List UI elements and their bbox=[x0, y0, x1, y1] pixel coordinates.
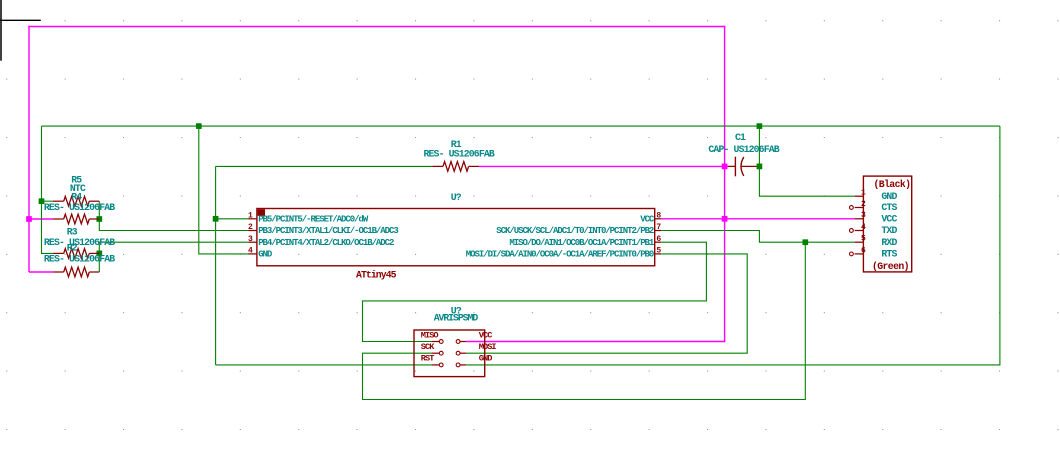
svg-text:AVRISPSMD: AVRISPSMD bbox=[434, 312, 479, 323]
connector J1 pin 4 (TXD) bbox=[855, 223, 898, 236]
wire GND: C1 branch to J1 GND bbox=[759, 126, 854, 196]
junction RESET at IC pin 1 row bbox=[213, 216, 219, 222]
wire GND: drop to IC pin 4 bbox=[199, 126, 249, 254]
ic U? pin 4 (GND) bbox=[248, 247, 273, 260]
svg-text:(Green): (Green) bbox=[872, 261, 909, 272]
label (Black) bbox=[874, 179, 911, 190]
wire SCK: IC pin 7 to J1 RXD bbox=[661, 231, 855, 243]
svg-text:C1: C1 bbox=[735, 132, 746, 143]
svg-text:MISO: MISO bbox=[421, 330, 439, 340]
connector J1 pin 3 (VCC) bbox=[855, 211, 898, 224]
wire VCC: R1 to C1 bbox=[479, 165, 728, 167]
svg-text:CAP- US1206FAB: CAP- US1206FAB bbox=[708, 144, 779, 155]
svg-text:RES- US1206FAB: RES- US1206FAB bbox=[424, 149, 495, 160]
resistor R5 bbox=[53, 196, 99, 206]
no-connect marker pin 4 (TXD) bbox=[849, 229, 853, 233]
svg-text:MOSI/DI/SDA/AIN0/OC0A/-OC1A/AR: MOSI/DI/SDA/AIN0/OC0A/-OC1A/AREF/PCINT0/… bbox=[466, 250, 654, 260]
wire VCC: IC pin 8 to J1 VCC bbox=[661, 218, 855, 220]
wire VCC: to ISP VCC pin bbox=[466, 341, 725, 343]
junction GND rail to IC bbox=[196, 123, 202, 129]
svg-text:PB4/PCINT4/XTAL2/CLKO/OC1B/ADC: PB4/PCINT4/XTAL2/CLKO/OC1B/ADC2 bbox=[258, 238, 394, 248]
svg-text:3: 3 bbox=[861, 211, 866, 220]
junction VCC at IC pin 8 row bbox=[722, 216, 728, 222]
label ATtiny45 bbox=[356, 270, 397, 281]
ic U? pin 5 (PB0) bbox=[466, 247, 662, 260]
wire GND: left vertical to R3 bbox=[42, 126, 54, 253]
ic U? pin 7 (PB2) bbox=[496, 223, 661, 236]
value RES- US1206FAB (R2) bbox=[44, 253, 115, 264]
label C1 bbox=[735, 132, 746, 143]
svg-text:VCC: VCC bbox=[640, 214, 655, 224]
wire PB3: divider tap to IC pin 2 bbox=[99, 201, 248, 230]
connector J1 body bbox=[863, 176, 911, 272]
svg-text:VCC: VCC bbox=[479, 330, 492, 340]
svg-text:VCC: VCC bbox=[881, 213, 897, 224]
label R4 bbox=[71, 191, 82, 202]
svg-text:R4: R4 bbox=[71, 191, 82, 202]
label AVRISPSMD bbox=[434, 312, 479, 323]
value RES- US1206FAB (R1) bbox=[424, 149, 495, 160]
label (Green) bbox=[872, 261, 909, 272]
no-connect marker pin 6 (RTS) bbox=[849, 252, 853, 256]
isp pin GND bbox=[456, 354, 492, 367]
value RES- US1206FAB (R3) bbox=[44, 237, 115, 248]
junction GND at R5 left lead bbox=[39, 198, 45, 204]
svg-text:ATtiny45: ATtiny45 bbox=[356, 270, 397, 281]
junction SCK branch bbox=[802, 239, 808, 245]
junction PB3 at R4 right lead bbox=[96, 216, 102, 222]
svg-text:5: 5 bbox=[656, 247, 661, 256]
svg-text:6: 6 bbox=[861, 246, 866, 255]
svg-text:RES- US1206FAB: RES- US1206FAB bbox=[44, 237, 115, 248]
wire SCK: bottom route to ISP SCK bbox=[363, 242, 806, 399]
wire RESET: to IC pin 1 bbox=[216, 218, 249, 220]
wire GND: right vertical to ISP GND bbox=[466, 126, 1000, 365]
svg-text:8: 8 bbox=[656, 211, 661, 220]
wire VCC: stub to R2 bbox=[29, 271, 53, 273]
isp pin VCC bbox=[456, 330, 492, 343]
svg-text:7: 7 bbox=[656, 223, 661, 232]
svg-text:2: 2 bbox=[248, 223, 253, 232]
isp pin MISO bbox=[421, 330, 443, 343]
value CAP- US1206FAB (C1) bbox=[708, 144, 779, 155]
svg-text:4: 4 bbox=[861, 223, 866, 232]
wire GND: top rail bbox=[42, 125, 1000, 127]
svg-text:GND: GND bbox=[479, 354, 492, 364]
svg-text:2: 2 bbox=[861, 200, 866, 209]
resistor R2 bbox=[53, 267, 99, 277]
ic U? ATtiny45 body bbox=[257, 209, 655, 266]
svg-text:R2: R2 bbox=[67, 243, 78, 254]
label R1 bbox=[451, 139, 462, 150]
no-connect marker pin 2 (CTS) bbox=[849, 206, 853, 210]
isp pin RST bbox=[421, 354, 443, 367]
svg-text:SCK: SCK bbox=[421, 342, 435, 352]
svg-text:R3: R3 bbox=[67, 226, 78, 237]
connector J1 pin 6 (RTS) bbox=[855, 246, 898, 259]
svg-text:(Black): (Black) bbox=[874, 179, 911, 190]
wire VCC: left vertical bbox=[28, 26, 30, 272]
junction VCC at R4 left lead bbox=[26, 216, 32, 222]
isp pin SCK bbox=[421, 342, 443, 355]
junction GND at C1 right plate bbox=[757, 164, 763, 170]
wire RESET: to ISP RST pin bbox=[216, 364, 432, 366]
junction GND rail to C1 bbox=[757, 123, 763, 129]
junction PB4 at R3 right lead bbox=[96, 251, 102, 257]
isp pin MOSI bbox=[456, 342, 496, 355]
value NTC (R5) bbox=[70, 183, 86, 194]
wire VCC: top horizontal rail bbox=[28, 26, 725, 28]
svg-text:4: 4 bbox=[248, 247, 253, 256]
label R5 bbox=[71, 174, 82, 185]
label U? (ATtiny45) bbox=[451, 192, 462, 203]
svg-text:GND: GND bbox=[258, 250, 273, 260]
svg-text:RES- US1206FAB: RES- US1206FAB bbox=[44, 202, 115, 213]
svg-text:3: 3 bbox=[248, 235, 253, 244]
resistor R4 bbox=[53, 214, 99, 224]
resistor R1 bbox=[432, 162, 479, 172]
label R2 bbox=[67, 243, 78, 254]
svg-text:RES- US1206FAB: RES- US1206FAB bbox=[44, 253, 115, 264]
svg-text:U?: U? bbox=[451, 192, 462, 203]
svg-text:RTS: RTS bbox=[881, 249, 897, 260]
connector J1 pin 5 (RXD) bbox=[855, 235, 898, 248]
junction VCC at C1 left plate bbox=[722, 164, 728, 170]
wire GND: stub to R5 bbox=[42, 200, 54, 202]
value RES- US1206FAB (R4) bbox=[44, 202, 115, 213]
wire RESET: horizontal to R1 bbox=[216, 165, 433, 167]
capacitor C1 bbox=[728, 157, 757, 177]
svg-text:CTS: CTS bbox=[881, 202, 897, 213]
wire RESET: vertical bbox=[215, 166, 217, 365]
svg-text:RST: RST bbox=[421, 354, 434, 364]
ic U? pin 3 (PB4) bbox=[248, 235, 394, 248]
label U? (AVRISPSMD) bbox=[451, 306, 462, 317]
svg-text:SCK/USCK/SCL/ADC1/T0/INT0/PCIN: SCK/USCK/SCL/ADC1/T0/INT0/PCINT2/PB2 bbox=[496, 226, 654, 236]
svg-text:6: 6 bbox=[656, 235, 661, 244]
wire VCC: stub to R4 bbox=[29, 218, 53, 220]
wire VCC: right vertical bbox=[724, 26, 726, 342]
wire MOSI: IC pin 5 to ISP MOSI bbox=[466, 254, 747, 353]
svg-text:PB3/PCINT3/XTAL1/CLKI/-OC1B/AD: PB3/PCINT3/XTAL1/CLKI/-OC1B/ADC3 bbox=[258, 226, 398, 236]
label R3 bbox=[67, 226, 78, 237]
wire PB4: divider tap to IC pin 3 bbox=[99, 242, 248, 272]
ic U? pin 6 (PB1) bbox=[509, 235, 661, 248]
svg-text:GND: GND bbox=[881, 191, 897, 202]
resistor R3 bbox=[53, 249, 99, 259]
svg-text:5: 5 bbox=[861, 235, 866, 244]
svg-text:1: 1 bbox=[248, 211, 253, 220]
ic U? pin 2 (PB3) bbox=[248, 223, 398, 236]
ic U? pin 1 (PB5) bbox=[248, 211, 369, 224]
isp header U? AVRISPSMD body bbox=[414, 330, 485, 377]
ic U? pin 8 (VCC) bbox=[640, 211, 661, 224]
svg-text:MOSI: MOSI bbox=[479, 342, 497, 352]
svg-text:TXD: TXD bbox=[881, 225, 897, 236]
svg-text:1: 1 bbox=[861, 189, 866, 198]
connector J1 pin 1 (GND) bbox=[855, 189, 898, 202]
connector J1 pin 2 (CTS) bbox=[855, 200, 898, 213]
svg-text:RXD: RXD bbox=[881, 237, 897, 248]
wire MISO: IC pin 6 to ISP MISO bbox=[363, 242, 707, 341]
svg-text:MISO/DO/AIN1/OC0B/OC1A/PCINT1/: MISO/DO/AIN1/OC0B/OC1A/PCINT1/PB1 bbox=[509, 238, 655, 248]
svg-text:PB5/PCINT5/-RESET/ADC0/dW: PB5/PCINT5/-RESET/ADC0/dW bbox=[258, 214, 369, 224]
